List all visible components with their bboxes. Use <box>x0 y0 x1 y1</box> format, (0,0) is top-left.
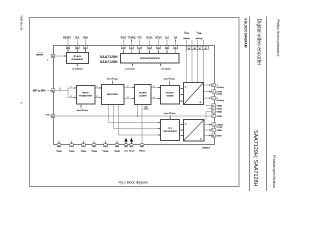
svg-text:23: 23 <box>149 47 151 49</box>
down arrows into blocks from top pins <box>67 50 68 52</box>
svg-text:VREF: VREF <box>217 130 223 132</box>
svg-text:8: 8 <box>128 97 129 99</box>
svg-text:from I²C-bus: from I²C-bus <box>77 109 88 112</box>
wire RTCO C bottom to pin <box>141 105 143 145</box>
junction dot <box>137 115 138 116</box>
svg-text:34: 34 <box>84 47 86 49</box>
DAC 2 <box>184 120 205 142</box>
svg-text:F: F <box>154 86 155 88</box>
svg-text:MP7 to MP0: MP7 to MP0 <box>33 89 47 92</box>
svg-text:45: 45 <box>188 48 190 50</box>
wire RESET left <box>50 55 66 57</box>
encoder block <box>102 85 125 105</box>
blocks <box>67 53 205 142</box>
svg-text:8: 8 <box>59 88 60 90</box>
svg-text:SDA: SDA <box>83 37 88 40</box>
label stub arrows <box>77 65 78 67</box>
chip boundary <box>54 46 215 145</box>
svg-text:55: 55 <box>116 145 118 147</box>
svg-text:50: 50 <box>58 145 60 147</box>
svg-text:CODER: CODER <box>139 96 147 98</box>
wires mid supply pins <box>206 105 211 106</box>
svg-text:PROCESSOR: PROCESSOR <box>163 131 177 133</box>
svg-text:8: 8 <box>213 92 214 94</box>
svg-text:RTCO: RTCO <box>139 151 145 153</box>
svg-text:(S-video): (S-video) <box>217 100 225 102</box>
output stage block <box>161 86 180 105</box>
svg-text:F: F <box>128 86 129 88</box>
svg-text:SAA7129H: SAA7129H <box>100 55 118 59</box>
filter block <box>135 85 152 105</box>
svg-text:SCL: SCL <box>75 38 80 40</box>
svg-text:26: 26 <box>175 47 177 49</box>
svg-text:53: 53 <box>93 145 95 147</box>
svg-text:RCV1: RCV1 <box>146 38 153 40</box>
wire TTX long horizontal <box>50 115 211 117</box>
svg-text:24: 24 <box>158 47 160 49</box>
svg-text:(digital): (digital) <box>184 37 190 40</box>
svg-text:INPUT: INPUT <box>82 93 89 95</box>
svg-text:36: 36 <box>67 47 69 49</box>
figure frame <box>30 18 240 187</box>
wire D to DAC1 <box>180 88 184 90</box>
I2C-bus interface block <box>67 53 89 64</box>
bottom pin labels <box>56 151 145 153</box>
wire IICSA top <box>67 39 69 52</box>
svg-text:(analog): (analog) <box>196 38 203 40</box>
pin boxes bottom <box>57 144 61 147</box>
svg-text:RESET: RESET <box>36 54 44 56</box>
svg-text:clocks: clocks <box>144 109 149 111</box>
pin boxes left <box>51 54 55 57</box>
svg-text:TTX: TTX <box>168 128 173 130</box>
svg-text:1: 1 <box>213 130 214 132</box>
under-block italic labels <box>72 67 175 114</box>
input formatter block <box>77 86 96 105</box>
wire TTX to DAC2 <box>180 124 184 126</box>
svg-text:64: 64 <box>212 136 214 138</box>
svg-text:SYNCHRONIZATION: SYNCHRONIZATION <box>140 57 160 60</box>
wire A to B <box>95 87 101 89</box>
power rails VDDD/VDDA down to DAC1 <box>185 40 187 83</box>
svg-text:4: 4 <box>213 112 214 114</box>
tiny branch labels <box>71 86 155 99</box>
bus slash 8 on MP wire <box>59 89 61 92</box>
svg-text:22: 22 <box>139 47 141 49</box>
right pin labels <box>217 85 225 138</box>
svg-text:7: 7 <box>213 98 214 100</box>
wire SDA top <box>84 39 86 52</box>
svg-text:LLC: LLC <box>165 38 170 40</box>
svg-text:(comp): (comp) <box>217 127 223 129</box>
svg-text:5: 5 <box>213 109 214 111</box>
svg-text:line clocks: line clocks <box>161 68 170 70</box>
svg-text:47: 47 <box>199 48 201 50</box>
svg-text:MGR473: MGR473 <box>203 148 211 150</box>
svg-text:Product specification: Product specification <box>272 155 276 188</box>
RESET overline <box>38 52 44 54</box>
svg-text:Philips Semiconductors: Philips Semiconductors <box>276 20 280 57</box>
pin boxes right <box>212 83 216 86</box>
svg-text:3: 3 <box>213 116 214 118</box>
left pin labels <box>33 54 50 116</box>
svg-text:6: 6 <box>213 106 214 108</box>
svg-text:FORMATTER: FORMATTER <box>79 95 92 98</box>
svg-text:57: 57 <box>131 145 133 147</box>
svg-text:SAA7128H: SAA7128H <box>100 60 118 64</box>
svg-text:STAGE: STAGE <box>167 95 175 98</box>
svg-text:RTCI: RTCI <box>121 38 127 40</box>
svg-text:46: 46 <box>194 48 196 50</box>
svg-text:FILTER/: FILTER/ <box>139 93 147 95</box>
pin numbers <box>52 47 214 147</box>
bold input arrows LLC pins <box>125 139 133 145</box>
svg-text:from I²C-bus: from I²C-bus <box>164 112 175 115</box>
svg-text:ENCODER: ENCODER <box>107 94 118 96</box>
bottom stub down arrows <box>58 142 59 144</box>
svg-text:35: 35 <box>76 47 78 49</box>
up arrows at labels (outputs) <box>131 39 132 41</box>
svg-text:from I²C-bus: from I²C-bus <box>164 77 175 80</box>
svg-text:Digital video encoder: Digital video encoder <box>256 19 262 66</box>
top pin labels <box>63 32 203 40</box>
wire SCL top <box>76 39 78 52</box>
svg-text:XCLK: XCLK <box>129 151 135 153</box>
wires B bottom to TTX block <box>109 105 161 123</box>
svg-text:from I²C-bus: from I²C-bus <box>107 77 118 80</box>
wire C to D <box>151 87 161 89</box>
arrowheads <box>64 55 66 56</box>
wire MP input <box>48 89 69 91</box>
svg-text:56: 56 <box>125 145 127 147</box>
ttx processor block <box>161 120 180 141</box>
svg-text:Fig.1 Block diagram.: Fig.1 Block diagram. <box>119 181 149 185</box>
svg-text:21: 21 <box>131 47 133 49</box>
under-block label arrows <box>76 64 78 67</box>
svg-text:41: 41 <box>52 90 54 92</box>
wires DAC2 outputs <box>204 124 211 126</box>
svg-text:RESET: RESET <box>63 38 71 40</box>
svg-text:to encoder: to encoder <box>125 67 135 70</box>
DAC diagonals <box>184 83 204 105</box>
svg-text:52: 52 <box>82 145 84 147</box>
svg-text:(comp): (comp) <box>217 94 223 96</box>
svg-text:RSET: RSET <box>217 135 223 137</box>
svg-text:INTERFACE: INTERFACE <box>71 58 83 61</box>
wire C bottom to junction <box>137 105 139 117</box>
svg-text:33: 33 <box>52 56 54 58</box>
wires sync pins top <box>122 39 124 53</box>
svg-text:LLC: LLC <box>124 151 128 153</box>
svg-text:6 BLOCK DIAGRAM: 6 BLOCK DIAGRAM <box>244 18 248 47</box>
header rule 2 <box>266 17 268 192</box>
svg-text:RCV2: RCV2 <box>155 38 162 40</box>
svg-text:47: 47 <box>52 116 54 118</box>
svg-text:SA: SA <box>174 37 178 40</box>
svg-text:(S-video): (S-video) <box>217 87 225 89</box>
svg-text:TTXRQ: TTXRQ <box>128 38 136 40</box>
svg-text:1998 Mar 06: 1998 Mar 06 <box>20 15 24 31</box>
svg-text:20: 20 <box>122 47 124 49</box>
svg-text:58: 58 <box>141 145 143 147</box>
svg-text:to all blocks: to all blocks <box>72 68 82 71</box>
svg-text:SAA7129H; SAA7128H: SAA7129H; SAA7128H <box>252 130 258 186</box>
svg-text:2: 2 <box>213 125 214 127</box>
svg-text:8: 8 <box>154 97 155 99</box>
header rule 1 <box>249 17 251 192</box>
DAC 1 <box>184 83 204 105</box>
block texts <box>71 55 177 133</box>
wires DAC1 outputs <box>204 84 212 86</box>
pin boxes top <box>51 46 215 147</box>
svg-text:9: 9 <box>213 85 214 87</box>
svg-text:48: 48 <box>205 48 207 50</box>
svg-text:2: 2 <box>47 60 48 62</box>
svg-text:TTX: TTX <box>137 38 142 40</box>
svg-text:I²C-BUS: I²C-BUS <box>73 55 81 58</box>
bottom pin stubs <box>58 140 60 144</box>
synchronization block <box>121 54 180 64</box>
wire B to C <box>124 87 135 89</box>
svg-text:25: 25 <box>166 47 168 49</box>
svg-text:51: 51 <box>71 145 73 147</box>
svg-text:54: 54 <box>105 145 107 147</box>
svg-text:OUTPUT: OUTPUT <box>166 93 175 95</box>
svg-text:TTX: TTX <box>45 115 50 117</box>
